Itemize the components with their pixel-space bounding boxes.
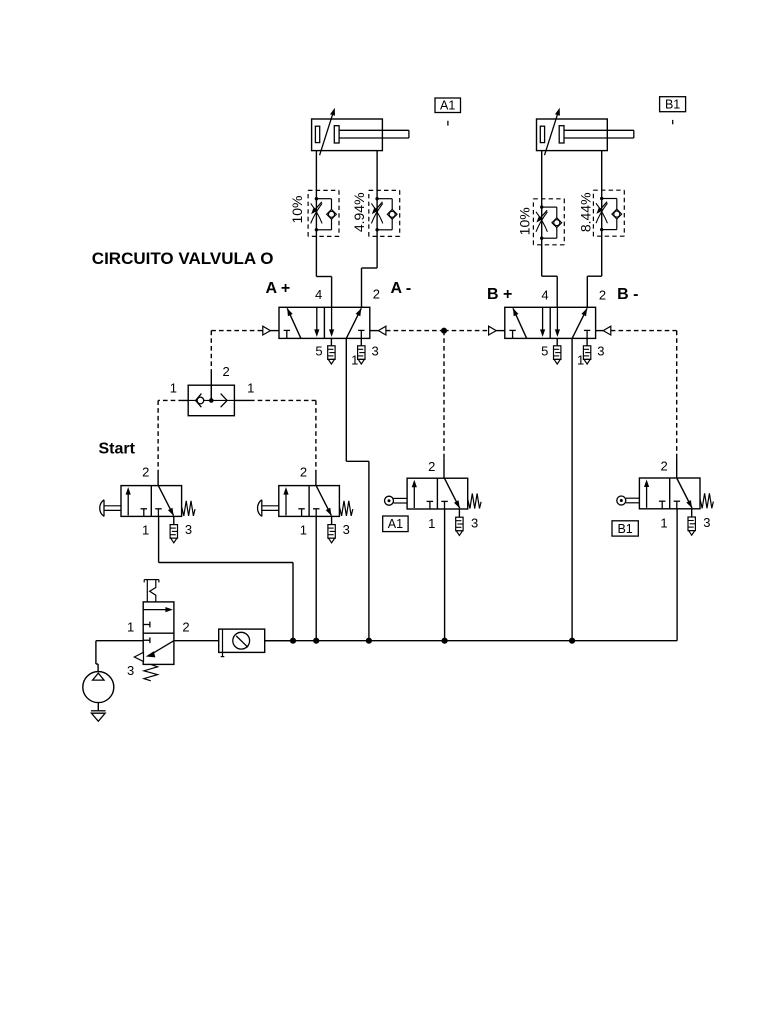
- svg-text:1: 1: [660, 516, 667, 531]
- service unit F (shut-off/filter): [219, 629, 265, 652]
- svg-text:1: 1: [428, 516, 435, 531]
- wire valve S port 1 to manifold: [158, 516, 160, 562]
- pilot line junction to valve B port 14 (dashed): [444, 330, 489, 332]
- valve A1 (3/2 roller valve): [407, 478, 468, 509]
- node manifold junction 4: [442, 638, 448, 644]
- svg-text:B1: B1: [617, 522, 632, 536]
- svg-text:3: 3: [185, 522, 192, 537]
- pilot port 12 triangle of valve B: [596, 330, 604, 332]
- exhaust below supply: [97, 703, 99, 711]
- wire cyl A port right to valve A port 2: [376, 151, 378, 268]
- svg-text:1: 1: [300, 522, 307, 537]
- silencer at valve S port 3: [173, 516, 175, 524]
- svg-text:4: 4: [541, 287, 548, 302]
- svg-text:10%: 10%: [517, 207, 533, 235]
- flow control valve V4 (cyl B right, 8.44%): [593, 189, 624, 191]
- svg-text:2: 2: [599, 287, 606, 302]
- svg-text:3: 3: [471, 515, 478, 530]
- distance mark B1: [672, 120, 674, 124]
- pilot port 14 triangle of valve A: [261, 330, 264, 332]
- label A1 (cylinder A end-position marker): [435, 98, 461, 113]
- svg-text:2: 2: [300, 465, 307, 480]
- svg-text:1: 1: [170, 381, 177, 396]
- svg-text:B1: B1: [665, 98, 680, 112]
- node manifold junction 2: [313, 638, 319, 644]
- node manifold junction 5: [569, 638, 575, 644]
- wire valve A port 1 to manifold: [345, 338, 347, 461]
- svg-text:2: 2: [182, 619, 189, 634]
- wire cyl A port left to valve A port 4: [315, 151, 317, 277]
- svg-text:2: 2: [222, 364, 229, 379]
- svg-text:3: 3: [127, 663, 134, 678]
- silencer at valve B port 5: [556, 338, 558, 345]
- silencer at valve A port 3: [360, 338, 362, 345]
- svg-text:4.94%: 4.94%: [351, 192, 367, 232]
- svg-text:2: 2: [142, 465, 149, 480]
- wire valve V7 port 2 to service unit: [174, 640, 219, 642]
- svg-text:3: 3: [371, 344, 378, 359]
- wire valve V6 port 1 to manifold: [315, 516, 317, 640]
- svg-text:1: 1: [142, 522, 149, 537]
- shuttle valve (OR): [188, 385, 234, 416]
- pilot line junction down to valve A1 (dashed): [443, 331, 445, 459]
- distance mark A1: [447, 121, 449, 126]
- wire valve A1 port 1 to manifold: [444, 509, 446, 641]
- silencer at valve B port 3: [586, 338, 588, 345]
- silencer at valve A port 5: [330, 338, 332, 345]
- node manifold junction 3: [366, 638, 372, 644]
- svg-text:2: 2: [373, 287, 380, 302]
- svg-text:Start: Start: [99, 440, 136, 457]
- svg-text:A1: A1: [440, 99, 455, 113]
- wire valve V7 port 1 to compressed air supply: [96, 640, 143, 642]
- wire shuttle left input to Start valve port 2 (dashed): [183, 399, 188, 401]
- valve V6 (3/2 push button): [279, 486, 340, 517]
- svg-text:4: 4: [315, 287, 322, 302]
- pilot port 14 triangle of valve B: [489, 326, 497, 335]
- cylinder A (double-acting, adjustable cushioning): [312, 119, 383, 151]
- label B1 (cylinder B end-position marker): [660, 97, 686, 112]
- wire shuttle right input to valve V6 port 2 (dashed): [234, 399, 250, 401]
- flow control valve V1 (cyl A left, 10%): [308, 189, 339, 191]
- svg-text:10%: 10%: [289, 195, 305, 223]
- svg-text:B -: B -: [617, 286, 638, 303]
- svg-text:CIRCUITO VALVULA O: CIRCUITO VALVULA O: [92, 249, 274, 268]
- silencer at valve B1 port 3: [691, 509, 693, 517]
- svg-text:A -: A -: [391, 280, 412, 297]
- svg-text:1: 1: [351, 352, 358, 367]
- wire valve B1 port 1 to manifold (riser): [676, 509, 678, 641]
- label box B1: [612, 521, 638, 536]
- svg-text:3: 3: [597, 344, 604, 359]
- svg-text:A +: A +: [266, 280, 291, 297]
- manifold supply line: [265, 640, 677, 642]
- pilot line shuttle to valve A port 14 (dashed): [211, 330, 262, 332]
- valve B1 (3/2 roller valve): [639, 478, 700, 509]
- wire cyl B port left to valve B port 4: [541, 151, 543, 277]
- silencer at valve V6 port 3: [331, 516, 333, 524]
- node manifold junction 1: [290, 638, 296, 644]
- valve V7 (3/2 shut-off valve, detented): [143, 602, 174, 665]
- svg-text:1: 1: [577, 352, 584, 367]
- compressed air supply P: [83, 672, 114, 703]
- svg-text:8.44%: 8.44%: [578, 192, 594, 232]
- svg-text:1: 1: [127, 619, 134, 634]
- wire service unit to manifold: [265, 640, 293, 642]
- wire cyl B port right to valve B port 2: [601, 151, 603, 277]
- flow control valve V3 (cyl B left, 10%): [533, 198, 564, 200]
- label box A1: [383, 516, 408, 532]
- silencer at valve A1 port 3: [458, 509, 460, 517]
- svg-text:3: 3: [343, 522, 350, 537]
- flow control valve V2 (cyl A right, 4.94%): [369, 189, 400, 191]
- valve B (5/2 double pilot valve): [505, 307, 596, 338]
- svg-text:3: 3: [703, 515, 710, 530]
- svg-text:B +: B +: [487, 286, 512, 303]
- pilot line valve A port 12 to junction (dashed): [386, 330, 444, 332]
- wire valve B port 1 to manifold: [571, 338, 573, 640]
- cylinder B (double-acting, adjustable cushioning): [537, 119, 608, 151]
- pilot port 12 triangle of valve A: [370, 330, 379, 332]
- svg-text:2: 2: [428, 459, 435, 474]
- node pilot junction A-/B+ signal: [441, 328, 447, 334]
- valve A (5/2 double pilot valve): [279, 307, 370, 338]
- svg-text:2: 2: [660, 459, 667, 474]
- svg-text:5: 5: [315, 343, 322, 358]
- pilot line valve B port 12 to valve B1 (dashed): [611, 330, 677, 332]
- svg-text:1: 1: [247, 381, 254, 396]
- svg-text:5: 5: [541, 343, 548, 358]
- valve S (3/2 push button, Start): [121, 486, 182, 517]
- svg-text:A1: A1: [388, 517, 403, 531]
